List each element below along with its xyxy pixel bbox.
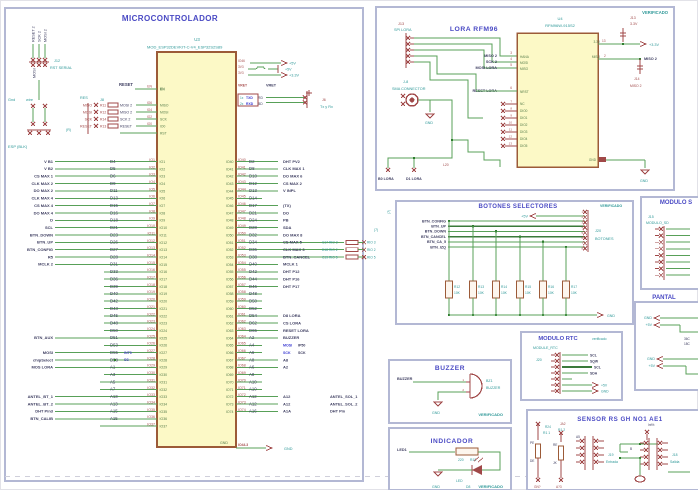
svg-text:IO40: IO40 — [226, 160, 234, 164]
wire U3 right pin row 2 net CLK MAX 1 — [226, 165, 305, 171]
wire U3 left pin row 34 net ANTEL_BT_2 — [28, 400, 167, 406]
svg-text:IO35: IO35 — [147, 408, 155, 412]
svg-text:VERIFICADO: VERIFICADO — [478, 412, 503, 417]
power GND at U3 bottom — [236, 443, 293, 451]
resistor R18 220 — [456, 448, 478, 462]
svg-text:IO11: IO11 — [147, 231, 155, 235]
svg-text:TXD: TXD — [246, 96, 253, 100]
svg-text:R5: R5 — [48, 254, 54, 259]
resistor R17 10K pulldown — [563, 247, 578, 316]
connector J20 BOTONES pins — [581, 210, 614, 252]
svg-text:BUZZER: BUZZER — [435, 365, 465, 372]
svg-text:IO66: IO66 — [226, 351, 234, 355]
svg-text:CS MAX 1: CS MAX 1 — [34, 174, 54, 179]
wire RTC row 1 SCL — [562, 353, 597, 357]
connector J15 MODULO SD — [646, 215, 690, 280]
resistor R16 10K pulldown — [540, 242, 555, 316]
svg-text:DE: DE — [530, 459, 534, 463]
frame MICROCONTROLADOR section box — [5, 8, 363, 481]
svg-text:IO13: IO13 — [147, 246, 155, 250]
svg-text:D8 LORA: D8 LORA — [283, 313, 301, 318]
wire U4 MISO 2 net — [592, 54, 657, 88]
svg-text:BTN_UP: BTN_UP — [431, 225, 446, 229]
svg-text:D21: D21 — [110, 225, 118, 230]
svg-text:EN: EN — [147, 85, 152, 89]
svg-text:IO4: IO4 — [149, 180, 155, 184]
svg-text:IO2: IO2 — [147, 115, 152, 119]
svg-text:IO27: IO27 — [147, 349, 155, 353]
svg-text:IO68: IO68 — [238, 364, 246, 368]
svg-text:L20: L20 — [443, 163, 449, 167]
svg-text:LED: LED — [456, 479, 463, 483]
resistor R12 10K pulldown — [446, 221, 461, 316]
svg-text:MCLK 2: MCLK 2 — [38, 262, 54, 267]
svg-text:D23: D23 — [110, 232, 118, 237]
svg-text:IO22: IO22 — [147, 312, 155, 316]
svg-text:IO66: IO66 — [238, 349, 246, 353]
wire U3 left pin row 17 net D36 — [104, 276, 167, 282]
svg-text:5: 5 — [510, 63, 512, 67]
svg-text:IO17: IO17 — [160, 278, 168, 282]
svg-text:A12: A12 — [249, 401, 257, 406]
svg-text:IO3: IO3 — [149, 173, 155, 177]
U4 left no-connect pins — [501, 100, 528, 149]
svg-text:IO6: IO6 — [147, 101, 152, 105]
svg-text:220: 220 — [458, 458, 464, 462]
svg-text:IO34: IO34 — [147, 400, 155, 404]
svg-text:A10: A10 — [249, 387, 257, 392]
svg-text:R1 1: R1 1 — [543, 431, 550, 435]
svg-text:IO30: IO30 — [160, 373, 168, 377]
wire U3 right pin row 24 net RESET LORA — [226, 327, 309, 333]
svg-text:IO72: IO72 — [226, 395, 234, 399]
svg-text:IO44: IO44 — [238, 187, 246, 191]
U4 left pin MOSI LORA — [475, 63, 528, 71]
svg-text:D13: D13 — [249, 188, 257, 193]
svg-text:IO48: IO48 — [226, 219, 234, 223]
svg-text:+5V: +5V — [521, 215, 528, 219]
svg-text:DHT Pin3: DHT Pin3 — [35, 409, 54, 414]
svg-text:IO23: IO23 — [147, 320, 155, 324]
svg-text:IO31: IO31 — [147, 378, 155, 382]
svg-text:SQW: SQW — [590, 359, 599, 363]
svg-text:MODULO S: MODULO S — [660, 200, 692, 206]
resistor R11 series on row 13 — [322, 248, 376, 252]
svg-text:R13: R13 — [478, 285, 484, 289]
svg-text:R24: R24 — [545, 425, 551, 429]
svg-text:IO64: IO64 — [226, 336, 234, 340]
svg-text:A13: A13 — [110, 401, 118, 406]
svg-text:PE: PE — [530, 441, 534, 445]
wire RTC row 2 SQW — [562, 359, 599, 363]
svg-text:MOS LORA: MOS LORA — [31, 365, 53, 370]
net label INT0 — [124, 351, 132, 355]
svg-text:SDA: SDA — [283, 225, 292, 230]
svg-text:NC: NC — [520, 102, 525, 106]
svg-text:MISO: MISO — [520, 67, 529, 71]
svg-text:R11: R11 — [100, 103, 106, 107]
svg-text:IO70: IO70 — [238, 378, 246, 382]
svg-text:IP50: IP50 — [298, 344, 305, 348]
svg-text:IO12: IO12 — [147, 239, 155, 243]
svg-text:IO71: IO71 — [226, 388, 234, 392]
svg-text:(7): (7) — [374, 228, 378, 232]
svg-text:D53: D53 — [110, 343, 118, 348]
title MODULO RTC — [538, 336, 606, 342]
left sheet edge line — [4, 8, 6, 481]
svg-text:IO36: IO36 — [160, 417, 168, 421]
svg-text:IO50: IO50 — [226, 233, 234, 237]
label VERIFICADO buzzer — [478, 412, 503, 417]
wire U3 left pin row 8 net DO MAX 4 — [34, 209, 166, 215]
resistor R12 series on row 14 — [322, 255, 376, 259]
svg-text:IO60: IO60 — [226, 307, 234, 311]
svg-text:J-8: J-8 — [403, 80, 408, 84]
wire U3 left pin row 5 net DO MAX 2 — [34, 187, 166, 193]
svg-text:IO32: IO32 — [147, 386, 155, 390]
svg-text:12: 12 — [509, 135, 513, 139]
svg-text:INT0: INT0 — [124, 351, 132, 355]
title MICROCONTROLADOR — [122, 14, 218, 23]
net label DIO LORA bottom — [378, 163, 449, 181]
svg-text:C19 RIO 5: C19 RIO 5 — [322, 255, 338, 259]
wire U3 left pin row 28 net chipSelect — [33, 356, 167, 362]
svg-text:RESET: RESET — [120, 124, 133, 128]
svg-text:CS MAX 4: CS MAX 4 — [34, 203, 54, 208]
svg-text:IO54: IO54 — [238, 261, 246, 265]
svg-text:IO64: IO64 — [238, 334, 246, 338]
svg-text:D36: D36 — [249, 247, 257, 252]
svg-text:GND: GND — [220, 441, 228, 445]
svg-text:IO67: IO67 — [226, 358, 234, 362]
frame MODULO SD box — [641, 197, 698, 289]
svg-text:IO34: IO34 — [160, 402, 168, 406]
svg-text:SCK 2: SCK 2 — [120, 117, 130, 121]
wire U3 left pin row 6 net CLK MAX 4 — [31, 195, 165, 201]
svg-text:18C: 18C — [684, 342, 691, 346]
wire U3 right pin row 13 net CLK MAX 3 — [226, 246, 344, 252]
svg-text:DIO3: DIO3 — [520, 130, 528, 134]
svg-text:Salida: Salida — [670, 460, 680, 464]
svg-text:IO54: IO54 — [226, 263, 234, 267]
net label SS — [124, 358, 129, 362]
svg-text:D38: D38 — [249, 254, 257, 259]
svg-text:GND: GND — [601, 390, 609, 394]
svg-text:GN?: GN? — [534, 485, 541, 489]
svg-text:R14: R14 — [501, 285, 507, 289]
svg-text:IO55: IO55 — [238, 268, 246, 272]
svg-text:MISO: MISO — [160, 103, 169, 107]
sheet edge dashed bottom line — [5, 476, 694, 478]
svg-text:ESP (BLK): ESP (BLK) — [8, 144, 28, 149]
wire LED to GND — [438, 469, 472, 471]
svg-text:V B1: V B1 — [44, 159, 54, 164]
svg-text:(7): (7) — [387, 210, 391, 214]
svg-text:VERIFICADO: VERIFICADO — [478, 484, 503, 489]
connector ISP header with MOSI wire — [8, 68, 51, 149]
svg-text:D45: D45 — [110, 313, 118, 318]
svg-text:IO65: IO65 — [238, 342, 246, 346]
svg-text:A1: A1 — [110, 365, 116, 370]
svg-text:IO51: IO51 — [238, 239, 246, 243]
svg-text:C17 RIO 3: C17 RIO 3 — [322, 241, 338, 245]
svg-text:IO61: IO61 — [238, 312, 246, 316]
wire net BTN_DOWN — [425, 230, 585, 234]
svg-text:RIO 5: RIO 5 — [367, 255, 376, 259]
wire RTC row 7 supply — [562, 389, 609, 394]
svg-text:MISO 2: MISO 2 — [644, 57, 657, 61]
connector J13 SPI LORA — [394, 22, 414, 68]
svg-text:BTN_CANCEL: BTN_CANCEL — [421, 235, 447, 239]
wire RTC row 5 supply — [562, 378, 572, 380]
svg-text:IO7: IO7 — [160, 204, 166, 208]
svg-text:MOSI: MOSI — [160, 110, 169, 114]
label verificado botones — [600, 204, 622, 208]
svg-text:SCK 2: SCK 2 — [38, 31, 42, 42]
svg-text:IO57: IO57 — [226, 285, 234, 289]
svg-text:BTN_CONFIG: BTN_CONFIG — [422, 219, 446, 223]
svg-text:IO53: IO53 — [226, 255, 234, 259]
svg-text:6: 6 — [510, 86, 512, 90]
svg-text:IO29: IO29 — [160, 366, 168, 370]
svg-text:R17: R17 — [571, 285, 577, 289]
svg-text:D12: D12 — [249, 181, 257, 186]
svg-text:DO MAX 4: DO MAX 4 — [34, 210, 54, 215]
svg-text:D54: D54 — [249, 313, 257, 318]
svg-text:SCL: SCL — [594, 365, 601, 369]
svg-text:chipSelect: chipSelect — [33, 357, 54, 362]
wire U3 right pin row 22 net D8 LORA — [226, 312, 301, 318]
wire U3 right pin row 23 net CS LORA — [226, 320, 301, 326]
svg-text:D4: D4 — [110, 159, 116, 164]
svg-text:DIO1: DIO1 — [520, 116, 528, 120]
svg-text:IO22: IO22 — [160, 314, 168, 318]
svg-text:D2: D2 — [249, 159, 255, 164]
svg-text:D5: D5 — [110, 166, 116, 171]
svg-text:IO10: IO10 — [160, 226, 168, 230]
svg-text:IO5: IO5 — [149, 187, 155, 191]
svg-text:IO18: IO18 — [147, 283, 155, 287]
wire U3 left pin row 7 net CS MAX 4 — [34, 202, 165, 208]
connector J18 Salida — [619, 438, 690, 472]
svg-text:INDICADOR: INDICADOR — [431, 438, 474, 445]
wire net BTN_CA_5 — [427, 240, 585, 244]
svg-text:ANTEL_BT_1: ANTEL_BT_1 — [28, 394, 54, 399]
svg-text:IO73: IO73 — [226, 402, 234, 406]
resistor R1 2 sensor — [553, 422, 566, 489]
svg-text:IO25: IO25 — [147, 334, 155, 338]
resistor R15 10K pulldown — [517, 237, 532, 317]
svg-text:D43: D43 — [110, 306, 118, 311]
wire U3 left pin row 3 net CS MAX 1 — [34, 173, 165, 179]
wire RTC row 3 SCL — [562, 365, 601, 369]
svg-text:SCL: SCL — [45, 225, 54, 230]
svg-text:BUZZER: BUZZER — [486, 386, 501, 390]
wire U3 left pin row 23 net D48 — [104, 320, 167, 326]
svg-text:IO52: IO52 — [226, 248, 234, 252]
svg-text:BUZZER: BUZZER — [283, 335, 299, 340]
svg-text:IO14: IO14 — [147, 253, 155, 257]
power GND indicador — [432, 472, 442, 489]
svg-text:MISO 2: MISO 2 — [120, 110, 132, 114]
wire net BTN_CANCEL — [421, 235, 585, 239]
svg-text:D15: D15 — [110, 203, 118, 208]
frame MODULO RTC box — [521, 332, 622, 400]
svg-text:LORA RFM96: LORA RFM96 — [450, 26, 498, 33]
resistor R13 10K pulldown — [470, 226, 485, 316]
IC U4 designator and value — [545, 16, 575, 28]
wire U3 left pin row 19 net D40 — [104, 290, 167, 296]
svg-text:IO15: IO15 — [160, 263, 168, 267]
svg-text:IO1: IO1 — [149, 158, 155, 162]
wire U3 right pin row 19 net D48 — [226, 290, 262, 296]
svg-text:BTN_DOWN: BTN_DOWN — [30, 232, 53, 237]
svg-text:10K: 10K — [525, 291, 532, 295]
svg-text:J19: J19 — [608, 453, 614, 457]
svg-text:IO6: IO6 — [160, 197, 166, 201]
svg-text:D27: D27 — [110, 247, 118, 252]
wire U3 left pin row 24 net D50 — [104, 327, 167, 333]
svg-text:DHT P16: DHT P16 — [283, 276, 300, 281]
wire U3 left pin row 29 net MOS LORA — [31, 364, 167, 370]
svg-text:SCL: SCL — [590, 353, 597, 357]
svg-text:D9: D9 — [110, 181, 116, 186]
wire U3 left pin row 14 net R5 — [48, 253, 167, 259]
net +3.3V supply row — [238, 71, 299, 78]
svg-text:D62: D62 — [249, 321, 257, 326]
svg-text:A15: A15 — [110, 416, 118, 421]
svg-text:IO25: IO25 — [160, 336, 168, 340]
svg-text:RST SERIAL: RST SERIAL — [50, 66, 72, 70]
svg-text:IO30: IO30 — [147, 371, 155, 375]
svg-text:IO53: IO53 — [238, 253, 246, 257]
wire RTC row 6 supply — [562, 383, 608, 388]
svg-text:MISO 2: MISO 2 — [484, 54, 497, 58]
wire U3 left pin row 13 net BTN_CONFIG — [27, 246, 167, 252]
svg-text:IO44.3: IO44.3 — [238, 443, 248, 447]
wire GND rail botones — [449, 313, 615, 319]
wire U3 left pin row 36 net BTN_CALIB — [30, 415, 167, 421]
svg-text:MODULE_RTC: MODULE_RTC — [533, 346, 558, 350]
wire net BTN_UP — [431, 225, 585, 229]
wire U3 left pin row 11 net BTN_DOWN — [30, 231, 167, 237]
svg-text:A10: A10 — [249, 379, 257, 384]
svg-text:HANA: HANA — [520, 55, 530, 59]
title MODULO SD — [660, 200, 692, 206]
svg-text:A5: A5 — [576, 435, 580, 439]
svg-text:D21: D21 — [249, 210, 257, 215]
svg-text:(R): (R) — [66, 128, 71, 132]
svg-text:IO42: IO42 — [226, 175, 234, 179]
wire U3 left pin row 20 net D42 — [104, 298, 167, 304]
U3 upper-left pin names — [160, 87, 169, 135]
svg-text:D40: D40 — [110, 291, 118, 296]
svg-text:GND: GND — [425, 121, 433, 125]
svg-text:D51: D51 — [110, 335, 118, 340]
svg-text:A12: A12 — [283, 394, 291, 399]
connector J-8 SMA CONNECTOR — [392, 80, 430, 106]
wire net BTN_IZQ — [430, 245, 585, 249]
IC U3 body — [157, 52, 236, 447]
svg-text:MOSI: MOSI — [283, 344, 292, 348]
svg-text:D32: D32 — [249, 232, 257, 237]
svg-text:IO5: IO5 — [160, 189, 166, 193]
svg-text:J15: J15 — [648, 215, 654, 219]
svg-text:A8: A8 — [249, 357, 255, 362]
svg-text:D14: D14 — [249, 196, 257, 201]
svg-text:IO14: IO14 — [160, 255, 168, 259]
svg-text:D8: D8 — [249, 166, 255, 171]
resistor R10 series on row 12 — [322, 240, 376, 244]
svg-text:A8: A8 — [283, 357, 289, 362]
svg-text:IO68: IO68 — [226, 366, 234, 370]
wire buzzer pin2 to GND — [438, 392, 466, 400]
power GND U4 bottom right — [589, 157, 649, 183]
svg-text:IO65: IO65 — [226, 344, 234, 348]
frame INDICADOR box — [389, 428, 511, 490]
svg-text:V B2: V B2 — [44, 166, 54, 171]
svg-text:A8: A8 — [249, 372, 255, 377]
svg-text:4: 4 — [510, 57, 512, 61]
svg-text:IO69: IO69 — [226, 373, 234, 377]
net BUZZER wire — [397, 377, 466, 382]
svg-text:DHT PV2: DHT PV2 — [283, 159, 301, 164]
svg-text:IO45: IO45 — [238, 195, 246, 199]
svg-text:D39: D39 — [110, 284, 118, 289]
svg-text:IO4: IO4 — [147, 108, 152, 112]
svg-text:+3.3V: +3.3V — [289, 74, 299, 78]
svg-text:RESET: RESET — [80, 124, 93, 128]
net +5V supply row 2 — [238, 65, 292, 73]
net +5V sensor — [645, 423, 655, 440]
svg-text:MISO 2: MISO 2 — [630, 84, 642, 88]
svg-text:3.3V: 3.3V — [630, 22, 638, 26]
svg-text:BOTONES SELECTORES: BOTONES SELECTORES — [479, 204, 558, 210]
svg-text:IO56: IO56 — [238, 276, 246, 280]
svg-text:BTN_CALIB: BTN_CALIB — [30, 416, 53, 421]
svg-text:IO50: IO50 — [238, 231, 246, 235]
svg-text:SCK: SCK — [85, 117, 93, 121]
svg-text:A2: A2 — [249, 335, 255, 340]
svg-text:IO41: IO41 — [238, 165, 246, 169]
svg-text:10K: 10K — [571, 291, 578, 295]
svg-text:B: B — [630, 447, 632, 451]
wire U3 left pin row 21 net D43 — [104, 305, 167, 311]
svg-text:A7: A7 — [110, 387, 116, 392]
wire U3 right pin row 20 net D50 — [226, 298, 262, 304]
svg-text:A1A: A1A — [283, 409, 291, 414]
svg-text:IO46: IO46 — [226, 204, 234, 208]
svg-text:GND: GND — [432, 485, 440, 489]
svg-text:11: 11 — [509, 128, 512, 132]
svg-text:IO9: IO9 — [160, 219, 166, 223]
svg-text:IO42: IO42 — [238, 173, 246, 177]
svg-text:3: 3 — [510, 51, 512, 55]
svg-text:VRET: VRET — [238, 84, 248, 88]
wire U3 right pin row 14 net BTN_CANCEL — [226, 253, 344, 259]
wire U3 left pin row 12 net BTN_UP — [37, 239, 167, 245]
svg-text:RFM96W-915S2: RFM96W-915S2 — [545, 23, 575, 28]
net +5V pantalla lower — [649, 364, 698, 375]
svg-text:A?3: A?3 — [556, 485, 562, 489]
svg-text:R12: R12 — [100, 110, 106, 114]
wire U3 right pin row 17 net DHT P16 — [226, 276, 300, 282]
svg-text:SENSOR RS GH NO1 AE1: SENSOR RS GH NO1 AE1 — [577, 416, 662, 423]
svg-text:R12: R12 — [454, 285, 460, 289]
svg-text:IO63: IO63 — [238, 327, 246, 331]
svg-text:IO44: IO44 — [226, 189, 234, 193]
svg-text:BTN_DOWN: BTN_DOWN — [425, 230, 447, 234]
